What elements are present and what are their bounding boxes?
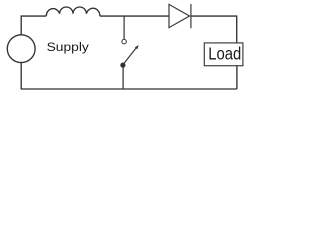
wire top-left (supply top to inductor) xyxy=(21,16,46,35)
wire supply bottom xyxy=(20,63,22,89)
wire switch branch vertical xyxy=(123,16,125,39)
switch lever with arrowhead xyxy=(124,45,139,64)
wire diode cathode to right corner xyxy=(191,16,237,43)
wire inductor to diode anode xyxy=(100,15,169,17)
diode xyxy=(169,4,191,28)
svg-text:Supply: Supply xyxy=(47,40,90,54)
wire load to bottom rail xyxy=(236,66,238,89)
voltage source (supply) circle xyxy=(7,35,35,63)
svg-text:Load: Load xyxy=(208,44,241,64)
wire bottom rail xyxy=(21,88,237,90)
switch open terminal circle xyxy=(122,39,126,43)
load box xyxy=(204,43,243,66)
inductor xyxy=(46,7,100,16)
switch pole junction dot xyxy=(120,63,125,68)
wire switch to bottom rail xyxy=(122,65,124,89)
